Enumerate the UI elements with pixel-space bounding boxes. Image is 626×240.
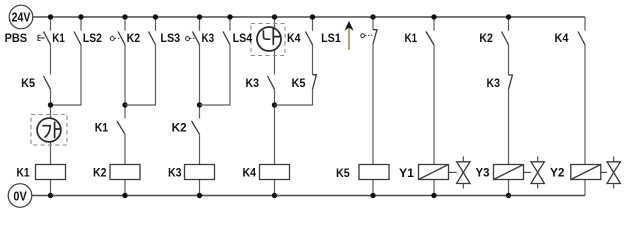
pushbutton actuator PBS	[38, 35, 45, 40]
hangul NA strokes	[263, 28, 280, 45]
svg-text:K5: K5	[21, 76, 35, 90]
top rail junction dots	[48, 14, 53, 19]
wire branch 3 (LS2 rung)	[124, 17, 126, 196]
wire branch 4 (K2 hold contact)	[125, 17, 156, 105]
contact K5 (NO)	[44, 76, 51, 89]
node branch10 bottom	[431, 193, 436, 198]
valve link Y2	[601, 171, 607, 173]
svg-text:K2: K2	[172, 121, 187, 135]
svg-text:K2: K2	[93, 166, 107, 180]
svg-text:K5: K5	[336, 166, 350, 180]
svg-text:K3: K3	[202, 31, 215, 45]
wire branch 6 (K3 hold contact)	[200, 17, 231, 105]
coil K5	[359, 165, 389, 180]
0V supply terminal	[8, 184, 32, 208]
wire branch 11 (K2,K3 / Y3 solenoid)	[508, 17, 510, 196]
linked sensor circle NA (LS4)	[257, 27, 281, 51]
solenoid Y3	[494, 165, 524, 180]
node branch5 bottom	[197, 193, 202, 198]
svg-text:0V: 0V	[13, 189, 27, 204]
contact PBS (NO pushbutton)	[44, 32, 51, 45]
contact K4 (NO)	[578, 32, 585, 45]
linked sensor circle GA	[37, 118, 61, 142]
svg-text:K4: K4	[555, 31, 569, 45]
contact LS3 (NO limit switch)	[193, 32, 200, 45]
coil K3	[185, 165, 215, 180]
contact K1 (NO)	[426, 32, 434, 46]
contact K3 (NO)	[223, 32, 230, 45]
junction node branch3	[122, 102, 127, 107]
node branch9 bottom	[370, 193, 375, 198]
svg-text:K4: K4	[287, 31, 301, 45]
svg-text:LS3: LS3	[160, 31, 180, 45]
arrow actuator LS1	[348, 28, 350, 50]
dashed link box LS4	[251, 24, 285, 56]
svg-text:K3: K3	[246, 76, 260, 90]
svg-text:K1: K1	[17, 166, 30, 180]
node branch7 bottom	[272, 193, 277, 198]
contact K3 (NC)	[509, 75, 513, 89]
svg-text:K5: K5	[292, 76, 306, 90]
solenoid Y2	[571, 165, 601, 180]
coil K2	[110, 165, 140, 180]
svg-text:K4: K4	[243, 166, 257, 180]
svg-text:Y1: Y1	[399, 166, 414, 180]
junction node branch5	[197, 102, 202, 107]
wire branch 10 (K1 / Y1 solenoid)	[433, 17, 435, 196]
coil K4	[260, 165, 290, 180]
svg-text:PBS: PBS	[5, 31, 28, 45]
svg-text:K1: K1	[52, 31, 65, 45]
svg-text:LS4: LS4	[233, 31, 253, 45]
wire branch 12 (K4 / Y2 solenoid)	[584, 17, 586, 196]
valve link Y3	[524, 171, 532, 173]
node branch11 bottom	[506, 193, 511, 198]
contact K2 (NO)	[149, 32, 156, 45]
top rail 24V	[33, 16, 585, 18]
contact K2 (NO)	[502, 32, 509, 45]
junction node branch7	[272, 102, 277, 107]
svg-text:LS1: LS1	[321, 31, 341, 45]
contact LS2 (NO limit switch)	[118, 32, 125, 45]
solenoid Y1	[419, 165, 449, 180]
contact K2 (NO, rung 3 series)	[192, 121, 200, 134]
wire branch 2 (K1 hold contact)	[51, 17, 82, 105]
dashed link box (pressure switch link)	[31, 115, 67, 146]
svg-text:K1: K1	[95, 121, 109, 135]
contact K4 (NO)	[306, 32, 313, 45]
contact K1 (NO)	[74, 32, 81, 45]
valve link Y1	[449, 171, 457, 173]
svg-text:Y3: Y3	[476, 166, 490, 180]
contact K3 (NO, rung 4 series)	[268, 76, 275, 89]
contact LS1 (NC limit switch)	[373, 30, 377, 44]
svg-text:K3: K3	[168, 166, 182, 180]
hangul GA strokes	[42, 122, 60, 139]
svg-text:K2: K2	[127, 31, 141, 45]
wire branch 7 (LS4 rung)	[274, 17, 276, 196]
coil K1	[36, 165, 66, 180]
wire branch 8 (K4 hold / K5 break)	[275, 17, 313, 105]
svg-text:K2: K2	[479, 31, 493, 45]
node branch1 bottom	[48, 193, 53, 198]
wire branch 5 (LS3 rung)	[199, 17, 201, 196]
contact K1 (NO, rung 2 series)	[117, 121, 125, 134]
svg-text:K3: K3	[487, 76, 501, 90]
contact K5 (NC)	[313, 75, 317, 90]
wire branch 9 (LS1 rung / K5 coil)	[372, 17, 374, 196]
limit switch actuator LS3	[186, 37, 190, 41]
svg-text:K1: K1	[405, 31, 418, 45]
bottom rail 0V	[32, 195, 585, 197]
svg-text:24V: 24V	[12, 10, 31, 25]
junction node branch1/branch2	[48, 102, 53, 107]
node branch3 bottom	[122, 193, 127, 198]
limit switch actuator LS2	[110, 37, 114, 41]
svg-text:Y2: Y2	[550, 166, 565, 180]
wire branch 1 (PBS/K5 rung)	[50, 17, 52, 196]
24V supply terminal	[9, 5, 33, 29]
svg-text:LS2: LS2	[83, 31, 102, 45]
limit switch actuator LS1	[361, 34, 365, 38]
